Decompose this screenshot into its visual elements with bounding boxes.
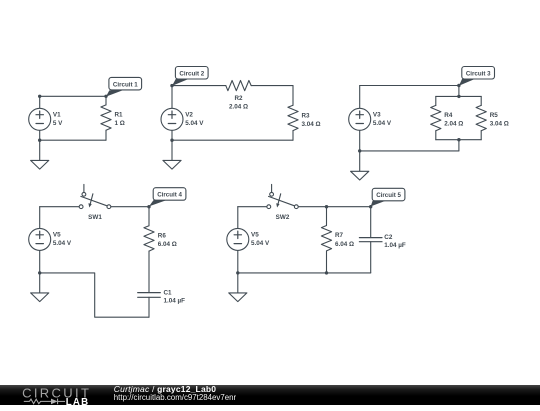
svg-text:5.04 V: 5.04 V — [185, 120, 204, 127]
wire top rail circuit 4 — [40, 206, 149, 208]
svg-text:R4: R4 — [444, 112, 453, 119]
node junction parallel bottom — [457, 138, 460, 141]
wire top rail circuit 5 — [238, 206, 371, 208]
node junction R6 top (anchor) — [147, 205, 150, 208]
node junction V1 top — [38, 95, 41, 98]
wire parallel top rail circuit 3 — [436, 95, 481, 97]
label Circuit 4 — [149, 188, 186, 207]
ground circuit 2 — [163, 140, 181, 169]
svg-text:3.04 Ω: 3.04 Ω — [490, 121, 509, 128]
node junction V2 bottom — [170, 139, 173, 142]
wire top rail circuit 1 — [40, 95, 106, 97]
node junction C2 top (anchor) — [369, 205, 372, 208]
node junction R1 top (anchor) — [104, 95, 107, 98]
svg-text:3.04 Ω: 3.04 Ω — [302, 121, 321, 128]
node junction R7 top — [325, 205, 328, 208]
wire bottom rail circuit 5 — [238, 272, 371, 274]
node junction V3 bottom — [358, 149, 361, 152]
svg-text:V3: V3 — [373, 111, 381, 118]
CircuitLab logo — [20, 386, 98, 406]
wire bottom rail circuit 1 — [40, 139, 106, 141]
label Circuit 2 — [172, 67, 208, 86]
svg-text:C2: C2 — [384, 234, 393, 241]
svg-text:V1: V1 — [53, 111, 61, 118]
node junction V5 bottom (circuit 4) — [38, 271, 41, 274]
svg-text:Circuit 2: Circuit 2 — [179, 70, 204, 77]
wire top rail circuit 3 — [360, 85, 459, 87]
svg-text:Circuit 5: Circuit 5 — [376, 192, 401, 199]
node junction V5 bottom (circuit 5) — [236, 271, 239, 274]
wire parallel bottom rail circuit 3 — [436, 139, 481, 141]
svg-text:V2: V2 — [185, 111, 193, 118]
svg-text:5.04 V: 5.04 V — [251, 240, 270, 247]
svg-text:R5: R5 — [490, 112, 499, 119]
wire bottom rail circuit 3 — [360, 150, 459, 152]
node junction V1 bottom — [38, 139, 41, 142]
label Circuit 1 — [106, 77, 142, 96]
capacitor C1 — [138, 289, 185, 317]
ground circuit 4 — [31, 273, 49, 302]
svg-text:C1: C1 — [164, 289, 173, 296]
svg-text:Circuit 1: Circuit 1 — [113, 81, 138, 88]
svg-text:5.04 V: 5.04 V — [53, 240, 72, 247]
svg-text:5.04 V: 5.04 V — [373, 120, 392, 127]
svg-text:5 V: 5 V — [53, 120, 63, 127]
wire stub from parallel bottom circuit 3 — [458, 140, 460, 151]
switch SW1 — [79, 184, 111, 221]
node junction V2 top (anchor) — [170, 84, 173, 87]
resistor R1 — [101, 96, 125, 140]
voltage source V2 — [161, 86, 204, 141]
node junction parallel top — [457, 95, 460, 98]
svg-text:6.04 Ω: 6.04 Ω — [158, 241, 177, 248]
label Circuit 5 — [371, 188, 405, 206]
wire bottom path circuit 4 — [40, 273, 149, 317]
ground circuit 3 — [351, 151, 369, 180]
node junction R7 bottom — [325, 271, 328, 274]
svg-text:LAB: LAB — [66, 396, 90, 405]
resistor R5 — [476, 96, 509, 139]
label Circuit 3 — [459, 67, 495, 86]
wire bottom rail circuit 2 — [172, 139, 293, 141]
svg-text:Circuit 4: Circuit 4 — [157, 192, 182, 199]
svg-text:V5: V5 — [53, 232, 61, 239]
svg-text:R2: R2 — [234, 95, 243, 102]
voltage source V3 — [349, 86, 392, 151]
wire top rail circuit 2 — [172, 85, 293, 87]
svg-text:1.04 µF: 1.04 µF — [164, 297, 186, 304]
svg-text:6.04 Ω: 6.04 Ω — [335, 241, 354, 248]
svg-text:2.04 Ω: 2.04 Ω — [444, 121, 463, 128]
svg-text:1.04 µF: 1.04 µF — [384, 242, 406, 249]
svg-text:V5: V5 — [251, 232, 259, 239]
resistor R3 — [288, 105, 321, 130]
svg-text:R7: R7 — [335, 232, 344, 239]
svg-text:R1: R1 — [115, 111, 124, 118]
svg-text:R3: R3 — [302, 112, 311, 119]
ground circuit 1 — [31, 140, 49, 169]
svg-text:R6: R6 — [158, 232, 167, 239]
wire stub to parallel top circuit 3 — [458, 86, 460, 97]
resistor R4 — [431, 96, 464, 139]
svg-text:SW1: SW1 — [88, 214, 102, 221]
voltage source V5 (circuit 5) — [227, 207, 270, 273]
node junction circuit 3 anchor — [457, 84, 460, 87]
switch SW2 — [267, 184, 298, 221]
resistor R2 — [226, 81, 251, 111]
svg-text:Circuit 3: Circuit 3 — [466, 70, 491, 77]
capacitor C2 — [359, 207, 406, 273]
wire right branch circuit 2 — [292, 86, 294, 141]
svg-text:SW2: SW2 — [276, 214, 290, 221]
svg-text:1 Ω: 1 Ω — [115, 120, 125, 127]
voltage source V1 — [29, 96, 63, 140]
ground circuit 5 — [229, 273, 247, 302]
voltage source V5 (circuit 4) — [29, 207, 72, 273]
svg-text:2.04 Ω: 2.04 Ω — [229, 104, 248, 111]
resistor R6 — [144, 207, 177, 293]
resistor R7 — [321, 207, 354, 273]
